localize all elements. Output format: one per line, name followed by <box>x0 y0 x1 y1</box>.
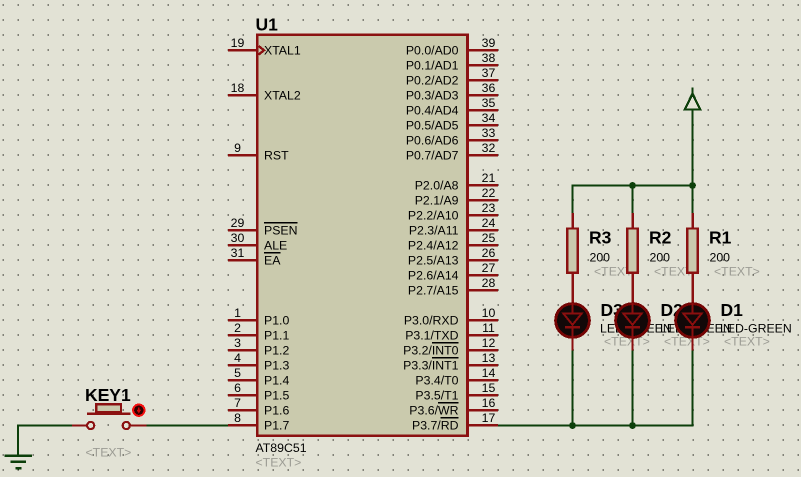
svg-text:22: 22 <box>482 186 496 200</box>
pin 10 P3.0/RXD <box>404 306 498 328</box>
pin 21 P2.0/A8 <box>415 171 498 193</box>
svg-text:P1.7: P1.7 <box>264 418 289 432</box>
svg-text:30: 30 <box>231 231 245 245</box>
pin 31 EA <box>228 246 281 268</box>
svg-text:P1.5: P1.5 <box>264 388 289 402</box>
svg-text:P3.6/WR: P3.6/WR <box>409 403 458 417</box>
svg-text:XTAL1: XTAL1 <box>264 43 301 57</box>
svg-text:35: 35 <box>482 96 496 110</box>
svg-text:D1: D1 <box>721 300 744 320</box>
svg-text:10: 10 <box>482 306 496 320</box>
wire bottom bus to pin P3.7 <box>497 424 694 426</box>
svg-text:R3: R3 <box>589 228 612 248</box>
power symbol VCC arrow <box>685 88 700 110</box>
svg-text:EA: EA <box>264 253 281 267</box>
svg-text:R1: R1 <box>709 228 732 248</box>
svg-text:12: 12 <box>482 336 496 350</box>
svg-text:16: 16 <box>482 396 496 410</box>
pin 17 P3.7/RD <box>412 411 498 433</box>
svg-text:200: 200 <box>710 251 731 265</box>
svg-text:P2.3/A11: P2.3/A11 <box>409 223 459 237</box>
svg-text:17: 17 <box>482 411 496 425</box>
svg-text:19: 19 <box>231 36 245 50</box>
svg-text:P1.1: P1.1 <box>264 328 289 342</box>
wire bus to R3 <box>571 184 573 214</box>
svg-text:11: 11 <box>482 321 495 335</box>
svg-text:P2.7/A15: P2.7/A15 <box>408 283 459 297</box>
svg-text:<TEXT>: <TEXT> <box>724 335 770 349</box>
wire D1 cathode down <box>691 350 693 427</box>
svg-text:P2.0/A8: P2.0/A8 <box>415 178 459 192</box>
pin 37 P0.2/AD2 <box>406 66 498 88</box>
svg-text:PSEN: PSEN <box>264 223 298 237</box>
KEY1 interactive actuator icon <box>133 405 144 416</box>
svg-text:14: 14 <box>482 366 496 380</box>
svg-text:18: 18 <box>231 81 245 95</box>
svg-text:P2.4/A12: P2.4/A12 <box>408 238 459 252</box>
svg-text:P0.1/AD1: P0.1/AD1 <box>406 58 459 72</box>
pin 24 P2.3/A11 <box>409 216 498 238</box>
pin 33 P0.6/AD6 <box>406 126 498 148</box>
svg-text:P1.6: P1.6 <box>264 403 289 417</box>
svg-text:P1.4: P1.4 <box>264 373 289 387</box>
svg-text:36: 36 <box>482 81 496 95</box>
pin 29 PSEN <box>228 216 298 238</box>
svg-text:P3.5/T1: P3.5/T1 <box>415 388 458 402</box>
pin 11 P3.1/TXD <box>405 321 498 343</box>
pin 36 P0.3/AD3 <box>406 81 498 103</box>
pin 35 P0.4/AD4 <box>406 96 498 118</box>
wire power drop to bus <box>691 109 693 186</box>
pin 13 P3.3/INT1 <box>403 351 498 373</box>
pin 6 P1.5 <box>228 381 290 403</box>
resistor R3 200 <box>567 213 578 304</box>
svg-text:P1.2: P1.2 <box>264 343 289 357</box>
svg-text:23: 23 <box>482 201 496 215</box>
junction bottom D3 <box>569 422 576 429</box>
LED D1 LED-GREEN <box>676 303 710 351</box>
svg-text:RST: RST <box>264 148 289 162</box>
svg-text:13: 13 <box>482 351 496 365</box>
svg-text:<TEXT>: <TEXT> <box>714 265 760 279</box>
svg-text:P1.0: P1.0 <box>264 313 289 327</box>
svg-text:29: 29 <box>231 216 245 230</box>
svg-text:7: 7 <box>234 396 241 410</box>
wire KEY1 to pin P1.7 <box>146 424 229 426</box>
svg-text:4: 4 <box>234 351 241 365</box>
svg-text:21: 21 <box>482 171 496 185</box>
svg-text:P3.3/INT1: P3.3/INT1 <box>403 358 459 372</box>
svg-text:8: 8 <box>234 411 241 425</box>
svg-text:6: 6 <box>234 381 241 395</box>
pin 7 P1.6 <box>228 396 290 418</box>
wire bus to R2 <box>631 186 633 215</box>
svg-text:15: 15 <box>482 381 496 395</box>
pin 27 P2.6/A14 <box>408 261 498 283</box>
svg-text:1: 1 <box>234 306 241 320</box>
pin 19 XTAL1 <box>228 36 301 58</box>
pin 4 P1.3 <box>228 351 290 373</box>
svg-text:P0.0/AD0: P0.0/AD0 <box>406 43 459 57</box>
svg-text:P0.2/AD2: P0.2/AD2 <box>406 73 459 87</box>
pin 26 P2.5/A13 <box>408 246 498 268</box>
svg-text:<TEXT>: <TEXT> <box>256 456 302 470</box>
LED D2 LED-GREEN <box>616 303 650 351</box>
svg-text:P2.5/A13: P2.5/A13 <box>408 253 459 267</box>
wire ground to KEY1 <box>17 424 73 426</box>
pin 5 P1.4 <box>228 366 290 388</box>
svg-text:32: 32 <box>482 141 496 155</box>
pin 18 XTAL2 <box>228 81 301 103</box>
svg-text:26: 26 <box>482 246 496 260</box>
svg-text:2: 2 <box>234 321 241 335</box>
svg-text:28: 28 <box>482 276 496 290</box>
ground symbol <box>5 456 33 468</box>
junction bus R1 power <box>689 182 696 189</box>
svg-text:33: 33 <box>482 126 496 140</box>
svg-text:P0.6/AD6: P0.6/AD6 <box>406 133 459 147</box>
junction bottom D2 <box>629 422 636 429</box>
svg-text:24: 24 <box>482 216 496 230</box>
svg-text:P3.0/RXD: P3.0/RXD <box>404 313 459 327</box>
svg-text:P2.6/A14: P2.6/A14 <box>408 268 459 282</box>
svg-text:200: 200 <box>650 251 671 265</box>
svg-text:P2.1/A9: P2.1/A9 <box>415 193 459 207</box>
svg-text:P1.3: P1.3 <box>264 358 289 372</box>
XTAL1 clock input chevron <box>259 46 264 55</box>
pin 38 P0.1/AD1 <box>406 51 498 73</box>
svg-text:AT89C51: AT89C51 <box>256 441 307 455</box>
svg-text:25: 25 <box>482 231 496 245</box>
pin 3 P1.2 <box>228 336 290 358</box>
pin 8 P1.7 <box>228 411 290 433</box>
pin 34 P0.5/AD5 <box>406 111 498 133</box>
svg-text:31: 31 <box>231 246 245 260</box>
pin 12 P3.2/INT0 <box>403 336 498 358</box>
svg-text:27: 27 <box>482 261 496 275</box>
op-amp U1 AT89C51 chip body <box>257 35 467 436</box>
svg-text:ALE: ALE <box>264 238 287 252</box>
svg-text:39: 39 <box>482 36 496 50</box>
svg-text:38: 38 <box>482 51 496 65</box>
svg-text:P3.4/T0: P3.4/T0 <box>415 373 458 387</box>
wire D3 cathode down <box>571 350 573 426</box>
svg-text:P3.2/INT0: P3.2/INT0 <box>403 343 459 357</box>
junction bus R2 <box>629 182 636 189</box>
svg-text:3: 3 <box>234 336 241 350</box>
wire bus to R1 <box>691 186 693 215</box>
switch KEY1 push button <box>72 404 147 429</box>
wire D2 cathode down <box>631 350 633 426</box>
pin 9 RST <box>228 141 289 163</box>
svg-text:XTAL2: XTAL2 <box>264 88 301 102</box>
svg-text:P3.7/RD: P3.7/RD <box>412 418 459 432</box>
svg-text:KEY1: KEY1 <box>85 385 131 405</box>
svg-text:200: 200 <box>590 251 611 265</box>
svg-text:P0.3/AD3: P0.3/AD3 <box>406 88 459 102</box>
pin 39 P0.0/AD0 <box>406 36 498 58</box>
svg-text:P2.2/A10: P2.2/A10 <box>408 208 459 222</box>
svg-text:U1: U1 <box>256 15 279 35</box>
pin 1 P1.0 <box>228 306 290 328</box>
svg-text:P0.5/AD5: P0.5/AD5 <box>406 118 459 132</box>
svg-text:R2: R2 <box>649 228 672 248</box>
wire ground drop <box>17 424 19 456</box>
svg-text:LED-GREEN: LED-GREEN <box>720 322 792 336</box>
svg-text:5: 5 <box>234 366 241 380</box>
pin 28 P2.7/A15 <box>408 276 498 298</box>
pin 16 P3.6/WR <box>409 396 498 418</box>
resistor R1 200 <box>687 213 698 304</box>
svg-text:37: 37 <box>482 66 496 80</box>
pin 25 P2.4/A12 <box>408 231 498 253</box>
pin 30 ALE <box>228 231 287 253</box>
pin 22 P2.1/A9 <box>415 186 498 208</box>
pin 23 P2.2/A10 <box>408 201 498 223</box>
pin 32 P0.7/AD7 <box>406 141 498 163</box>
resistor R2 200 <box>627 213 638 304</box>
svg-text:P0.7/AD7: P0.7/AD7 <box>406 148 459 162</box>
pin 15 P3.5/T1 <box>415 381 497 403</box>
svg-text:P3.1/TXD: P3.1/TXD <box>405 328 458 342</box>
svg-text:P0.4/AD4: P0.4/AD4 <box>406 103 459 117</box>
pin 14 P3.4/T0 <box>415 366 497 388</box>
wire top bus VCC net <box>571 184 693 186</box>
svg-text:34: 34 <box>482 111 496 125</box>
LED D3 LED-GREEN <box>556 303 590 351</box>
svg-text:9: 9 <box>234 141 241 155</box>
svg-text:<TEXT>: <TEXT> <box>86 446 132 460</box>
pin 2 P1.1 <box>228 321 290 343</box>
